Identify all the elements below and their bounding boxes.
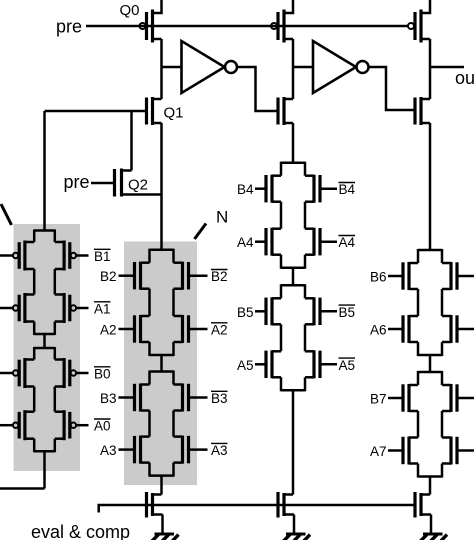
transistor Q0 (PMOS precharge) — [140, 0, 162, 43]
wire lower branches (A7 pair) — [418, 464, 442, 478]
wire merge bar (below A4 pair) — [281, 266, 305, 269]
label B0b (inverted) — [94, 367, 111, 382]
wire A5 gate lead — [255, 363, 266, 366]
wire B1b gate lead — [76, 254, 88, 257]
transistor B0b — [55, 358, 76, 388]
transistor A6 — [403, 315, 418, 343]
svg-text:B5: B5 — [339, 305, 356, 320]
wire split bar (above B1p pair) — [34, 229, 55, 232]
wire left stack exit to left edge — [0, 487, 45, 490]
wire lower branches (A6 pair) — [418, 342, 442, 356]
transistor Q1 (NMOS) — [147, 97, 162, 125]
svg-text:B6: B6 — [370, 270, 387, 285]
label B1b (inverted) — [94, 249, 111, 264]
transistor A5i — [305, 350, 320, 378]
ground (under M1) — [152, 515, 179, 540]
label A4i (inverted) — [339, 235, 356, 250]
wire A4 gate lead — [255, 240, 266, 243]
transistor B2i — [174, 262, 189, 290]
wire A5i gate lead — [320, 363, 337, 366]
svg-text:B2: B2 — [211, 269, 228, 284]
svg-text:N: N — [216, 208, 228, 227]
transistor B2 — [135, 262, 150, 290]
transistor B1p — [13, 241, 34, 271]
transistor B3i — [174, 384, 189, 412]
wire A3 gate lead — [119, 448, 135, 451]
wire branch verticals (B7 pair) — [418, 371, 442, 385]
wire node3 rail down to fourth stack — [429, 123, 432, 251]
svg-text:pre: pre — [56, 17, 82, 37]
wire center rail between groups — [429, 355, 432, 372]
pointer line to left stack (cut label) — [1, 204, 12, 225]
svg-text:A4: A4 — [339, 235, 356, 250]
transistor A4 — [266, 228, 281, 256]
wire pre lead to Q2 — [91, 182, 115, 185]
transistor A3i — [174, 436, 189, 464]
wire in-group branches (B3/A3) — [150, 411, 174, 437]
transistor P2 (middle PMOS precharge) — [271, 0, 293, 43]
wire A1b gate lead — [76, 307, 88, 310]
wire inverter U2 input tap — [293, 66, 313, 69]
svg-text:B3: B3 — [211, 391, 228, 406]
transistor A0p — [13, 410, 34, 440]
op-amp U1 (inverter) — [182, 41, 238, 93]
wire A7i gate lead — [457, 449, 474, 452]
label A3i (inverted) — [211, 443, 228, 458]
wire lower branches (A5 pair) — [281, 377, 305, 391]
wire B4 gate lead — [255, 187, 266, 190]
transistor B5i — [305, 297, 320, 325]
wire center rail between groups — [292, 268, 295, 286]
wire pre line — [86, 25, 408, 28]
svg-text:B4: B4 — [237, 182, 254, 197]
transistor B0p — [13, 358, 34, 388]
svg-text:A1: A1 — [94, 302, 111, 317]
wire branch verticals (B5 pair) — [281, 284, 305, 298]
wire split bar (above B0p pair) — [34, 347, 55, 350]
transistor Q3 (middle NMOS) — [278, 97, 293, 125]
wire out line — [430, 66, 464, 69]
wire B0b gate lead — [76, 372, 88, 375]
wire in-group branches (B5/A5) — [281, 324, 305, 351]
svg-text:B3: B3 — [100, 391, 117, 406]
wire B2i gate lead — [189, 274, 208, 277]
wire left rail down to first stack — [43, 111, 46, 232]
wire branch verticals (B2 pair) — [150, 249, 174, 263]
wire eval line — [99, 505, 415, 513]
wire merge bar (below A1p pair) — [34, 333, 55, 336]
wire A2 gate lead — [119, 328, 135, 331]
svg-text:eval & comp: eval & comp — [31, 522, 130, 540]
transistor M2 (eval NMOS, third stack) — [278, 492, 294, 518]
svg-text:A0: A0 — [94, 419, 111, 434]
wire node2 rail (middle PMOS drain down) — [292, 39, 295, 99]
svg-text:A2: A2 — [100, 323, 117, 338]
wire A1p gate lead — [0, 307, 13, 310]
wire B2 gate lead — [119, 274, 135, 277]
wire left stack bottom rail — [43, 451, 46, 488]
ground (under M2) — [284, 515, 311, 540]
svg-text:B7: B7 — [370, 392, 387, 407]
transistor B7 — [403, 384, 418, 412]
transistor A0b — [55, 410, 76, 440]
wire A6 gate lead — [388, 328, 403, 331]
svg-text:A3: A3 — [211, 443, 228, 458]
svg-text:A3: A3 — [100, 443, 117, 458]
svg-text:A6: A6 — [370, 323, 387, 338]
wire in-group branches (B6/A6) — [418, 289, 442, 316]
wire branch verticals (B1p pair) — [34, 230, 55, 243]
wire split bar (above B2 pair) — [150, 248, 174, 251]
label B5i (inverted) — [339, 305, 356, 320]
transistor A6i — [442, 315, 457, 343]
transistor B3 — [135, 384, 150, 412]
transistor B6 — [403, 262, 418, 290]
shaded box N around second stack — [124, 242, 197, 486]
wire merge bar (below A0p pair) — [34, 450, 55, 453]
wire U2 output to Q4 gate — [369, 67, 416, 110]
wire merge bar (below A7 pair) — [418, 475, 442, 478]
wire split bar (above B3 pair) — [150, 370, 174, 373]
transistor P3 (right PMOS precharge) — [408, 0, 430, 43]
wire merge bar (below A6 pair) — [418, 354, 442, 357]
wire lower branches (A2 pair) — [150, 342, 174, 356]
label A1b (inverted) — [94, 302, 111, 317]
wire B0p gate lead — [0, 372, 13, 375]
ground (under M3) — [421, 515, 448, 540]
transistor A3 — [135, 436, 150, 464]
wire branch verticals (B4 pair) — [281, 162, 305, 176]
svg-text:Q1: Q1 — [164, 105, 184, 122]
wire merge bar (below A3 pair) — [150, 474, 174, 477]
svg-text:B0: B0 — [94, 367, 111, 382]
svg-text:pre: pre — [63, 172, 89, 192]
label A2i (inverted) — [211, 323, 228, 338]
wire in-group branches (B2/A2) — [150, 289, 174, 316]
svg-text:Q0: Q0 — [120, 2, 140, 19]
transistor B5 — [266, 297, 281, 325]
wire B5i gate lead — [320, 310, 337, 313]
wire split bar (above B5 pair) — [281, 284, 305, 287]
wire node3 rail (right PMOS drain down) — [429, 39, 432, 99]
wire B5 gate lead — [255, 310, 266, 313]
wire node2 rail down to third stack — [292, 123, 295, 164]
wire B3i gate lead — [189, 396, 208, 399]
wire in-group branches (B1p/A1p) — [34, 269, 55, 295]
wire A6i gate lead — [457, 328, 474, 331]
wire B3 gate lead — [119, 396, 135, 399]
label B4i (inverted) — [339, 182, 356, 197]
svg-text:A5: A5 — [237, 358, 254, 373]
transistor Q2 (NMOS precharge) — [115, 169, 162, 197]
wire A0b gate lead — [76, 424, 88, 427]
wire third stack bottom rail — [292, 389, 295, 494]
wire A4i gate lead — [320, 240, 337, 243]
wire split bar (above B6 pair) — [418, 249, 442, 252]
transistor B4 — [266, 175, 281, 203]
svg-text:Q2: Q2 — [128, 177, 148, 194]
transistor B6i — [442, 262, 457, 290]
wire branch verticals (B6 pair) — [418, 249, 442, 263]
transistor M1 (eval NMOS, stack N) — [147, 492, 163, 518]
wire A3i gate lead — [189, 448, 208, 451]
wire B4i gate lead — [320, 187, 337, 190]
wire lower branches (A3 pair) — [150, 463, 174, 477]
wire Q1 gate line to left — [45, 110, 147, 113]
wire B6i gate lead — [457, 275, 474, 278]
wire fourth stack bottom rail — [429, 477, 432, 495]
wire center rail between groups — [160, 355, 163, 372]
wire lower branches (A4 pair) — [281, 255, 305, 269]
label A5i (inverted) — [339, 358, 356, 373]
transistor A7i — [442, 437, 457, 465]
wire lower branches (A1p pair) — [34, 322, 55, 336]
svg-text:A2: A2 — [211, 323, 228, 338]
wire stack N bottom rail — [160, 475, 163, 495]
wire U1 output to Q3 gate — [237, 67, 278, 111]
wire branch verticals (B3 pair) — [150, 371, 174, 385]
wire center rail between groups — [43, 334, 46, 348]
label B2i (inverted) — [211, 269, 228, 284]
label A0b (inverted) — [94, 419, 111, 434]
wire A2i gate lead — [189, 328, 208, 331]
wire split bar (above B7 pair) — [418, 371, 442, 374]
wire inverter U1 input tap — [162, 66, 182, 69]
transistor A1p — [13, 293, 34, 323]
transistor M3 (eval NMOS, fourth stack) — [415, 492, 431, 518]
label B3i (inverted) — [211, 391, 228, 406]
wire lower branches (A0p pair) — [34, 439, 55, 453]
svg-text:B2: B2 — [100, 269, 117, 284]
transistor A1b — [55, 293, 76, 323]
transistor A5 — [266, 350, 281, 378]
svg-text:B5: B5 — [237, 305, 254, 320]
svg-text:B4: B4 — [339, 182, 356, 197]
transistor A2 — [135, 315, 150, 343]
wire Q2 drain up to Q1 gate line — [130, 111, 133, 171]
wire in-group branches (B0p/A0p) — [34, 387, 55, 412]
shaded box around left (previous-stage) stack — [14, 224, 81, 471]
wire merge bar (below A2 pair) — [150, 354, 174, 357]
wire B1p gate lead — [0, 254, 13, 257]
wire B6 gate lead — [388, 275, 403, 278]
transistor A7 — [403, 437, 418, 465]
transistor A4i — [305, 228, 320, 256]
transistor B7i — [442, 384, 457, 412]
transistor Q4 (right NMOS) — [415, 97, 430, 125]
transistor B1b — [55, 241, 76, 271]
wire B7 gate lead — [388, 397, 403, 400]
svg-text:A4: A4 — [237, 235, 254, 250]
op-amp U2 (inverter) — [313, 41, 369, 93]
wire B7i gate lead — [457, 397, 474, 400]
wire merge bar (below A5 pair) — [281, 389, 305, 392]
pointer line from N to stack — [195, 224, 207, 240]
wire node1 rail (Q1 source down to stack N) — [160, 123, 163, 250]
wire in-group branches (B7/A7) — [418, 411, 442, 438]
wire node1 rail (Q0 drain down to Q1) — [160, 39, 163, 99]
svg-text:out: out — [455, 68, 474, 88]
transistor A2i — [174, 315, 189, 343]
svg-text:B1: B1 — [94, 249, 111, 264]
svg-text:A7: A7 — [370, 444, 387, 459]
wire split bar (above B4 pair) — [281, 161, 305, 164]
wire A7 gate lead — [388, 449, 403, 452]
svg-text:A5: A5 — [339, 358, 356, 373]
wire in-group branches (B4/A4) — [281, 202, 305, 229]
wire branch verticals (B0p pair) — [34, 347, 55, 360]
transistor B4i — [305, 175, 320, 203]
wire A0p gate lead — [0, 424, 13, 427]
